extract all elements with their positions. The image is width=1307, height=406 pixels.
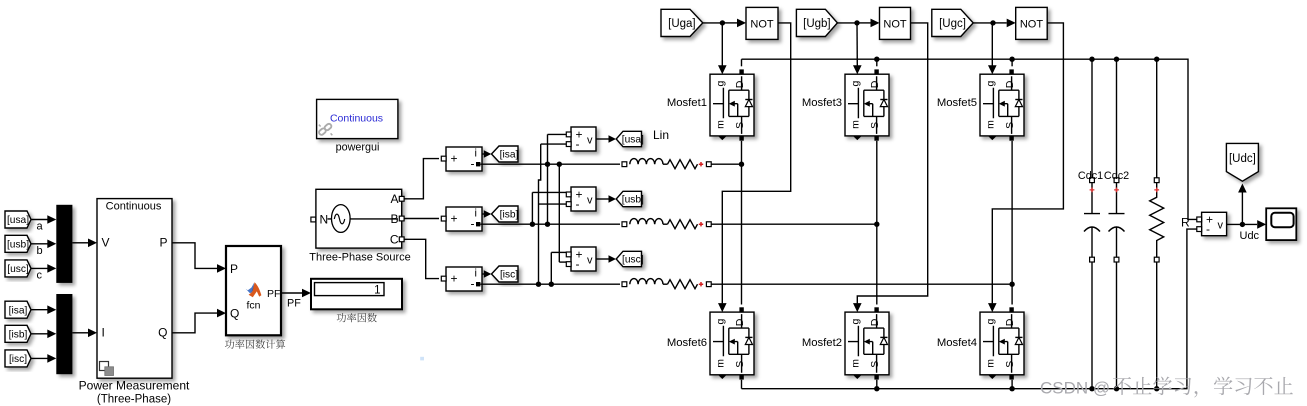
- svg-text:g: g: [984, 318, 996, 324]
- svg-text:PF: PF: [287, 298, 301, 310]
- wire tap a-c: [539, 144, 541, 284]
- svg-text:[isc]: [isc]: [500, 270, 518, 281]
- svg-text:-: -: [576, 257, 580, 271]
- goto tag [isc]: [492, 266, 519, 282]
- wire mux I to PM: [72, 332, 88, 334]
- from tag [Uga]: [661, 9, 703, 36]
- resistor phase a: [668, 160, 698, 169]
- wire i to [isc]: [482, 273, 487, 275]
- inductor Lin phase b: [630, 219, 698, 229]
- svg-text:i: i: [475, 208, 477, 220]
- wire VMa+: [548, 133, 567, 135]
- wire leg midpoint: [1011, 141, 1013, 305]
- wire NOT A to Mosfet6 gate: [722, 23, 790, 304]
- svg-text:[usa]: [usa]: [7, 215, 29, 226]
- wire v to [usc]: [596, 258, 612, 260]
- logic gate NOT Ugc: [1016, 7, 1047, 39]
- wire S to bottom bus: [741, 380, 743, 389]
- svg-text:a: a: [37, 221, 44, 233]
- capacitor Cdc2: [1109, 59, 1125, 389]
- wire phase to leg: [711, 283, 1012, 285]
- resistor phase b: [668, 220, 698, 229]
- svg-text:S: S: [869, 122, 881, 129]
- svg-text:g: g: [849, 81, 861, 87]
- wire leg midpoint: [741, 141, 743, 305]
- svg-text:-: -: [576, 137, 580, 151]
- svg-text:m: m: [984, 120, 996, 129]
- wire gate top: [991, 23, 993, 66]
- svg-text:[isa]: [isa]: [500, 150, 519, 161]
- wire NOT B to Mosfet2 gate: [857, 23, 927, 304]
- scope Udc: [1266, 208, 1296, 240]
- resistor R load: [1150, 59, 1164, 389]
- wire phase to leg: [711, 223, 877, 225]
- svg-text:[usc]: [usc]: [7, 264, 29, 275]
- svg-text:Continuous: Continuous: [106, 201, 162, 213]
- current measurement CMa: [446, 147, 482, 171]
- wire tap c: [550, 252, 552, 284]
- wire gate top: [856, 23, 858, 66]
- block display 功率因数: [311, 279, 402, 310]
- wire Q: [172, 313, 217, 333]
- svg-text:Cdc1: Cdc1: [1078, 170, 1103, 182]
- svg-text:D: D: [734, 80, 746, 88]
- svg-text:R: R: [1181, 215, 1190, 229]
- svg-text:D: D: [869, 318, 881, 326]
- wire S to bottom bus: [1011, 380, 1013, 389]
- svg-text:[usa]: [usa]: [622, 135, 644, 146]
- wire D to bus: [876, 59, 878, 66]
- svg-text:m: m: [849, 120, 861, 129]
- svg-text:m: m: [714, 359, 726, 368]
- svg-text:NOT: NOT: [883, 18, 907, 30]
- wire phase: [481, 163, 621, 165]
- svg-text:[usb]: [usb]: [7, 240, 29, 251]
- svg-text:D: D: [869, 80, 881, 88]
- wire phase: [481, 283, 621, 285]
- wire v to [usb]: [596, 198, 612, 200]
- from tag [Ugc]: [932, 9, 973, 36]
- mux voltage: [56, 205, 72, 283]
- svg-text:[usb]: [usb]: [622, 195, 644, 206]
- voltage measurement VMc: [571, 247, 596, 271]
- svg-text:(Three-Phase): (Three-Phase): [97, 394, 171, 406]
- wire v out: [1227, 223, 1257, 225]
- svg-text:Lin: Lin: [653, 128, 669, 142]
- wire v to [usa]: [596, 138, 612, 140]
- resistor phase c: [668, 280, 698, 289]
- logic gate NOT Uga: [746, 7, 778, 39]
- wire [isa] to mux: [31, 309, 48, 311]
- from tag [isb]: [5, 325, 31, 342]
- wire [Uga]: [703, 22, 723, 24]
- current measurement CMc: [446, 267, 482, 291]
- wire [isb] to mux: [31, 333, 48, 335]
- svg-text:Q: Q: [230, 307, 239, 321]
- svg-text:-: -: [576, 197, 580, 211]
- svg-text:N: N: [320, 212, 329, 226]
- svg-text:S: S: [734, 122, 746, 129]
- svg-text:[isc]: [isc]: [9, 354, 27, 365]
- transistor Mosfet4: [980, 312, 1024, 375]
- svg-text:I: I: [102, 326, 105, 340]
- voltage measurement VMb: [571, 187, 596, 211]
- from tag [isa]: [5, 301, 31, 318]
- wire tap b: [531, 192, 533, 224]
- from tag [isc]: [5, 350, 31, 367]
- svg-text:+: +: [451, 272, 458, 286]
- svg-text:A: A: [390, 192, 398, 206]
- svg-text:[Uga]: [Uga]: [668, 18, 696, 30]
- transistor Mosfet3: [845, 74, 889, 136]
- wire [Ugc]: [973, 22, 993, 24]
- svg-text:NOT: NOT: [750, 18, 774, 30]
- svg-text:-: -: [471, 277, 475, 291]
- svg-text:[usc]: [usc]: [622, 255, 644, 266]
- svg-text:CSDN @: CSDN @: [1040, 379, 1110, 398]
- transistor Mosfet2: [845, 312, 889, 375]
- goto tag [usa]: [616, 131, 644, 146]
- svg-text:Power Measurement: Power Measurement: [79, 379, 190, 393]
- svg-text:[Udc]: [Udc]: [1229, 153, 1256, 165]
- goto tag [isa]: [492, 146, 519, 162]
- wire i to [isb]: [482, 213, 487, 215]
- svg-text:i: i: [475, 268, 477, 280]
- svg-text:c: c: [37, 269, 43, 281]
- svg-text:D: D: [734, 318, 746, 326]
- svg-text:-: -: [471, 157, 475, 171]
- voltage measurement VMa: [571, 127, 596, 151]
- wire mux V to PM: [72, 242, 88, 244]
- wire [isc] to mux: [31, 357, 48, 359]
- goto tag [Udc]: [1226, 143, 1258, 181]
- transistor Mosfet1: [710, 74, 754, 136]
- mux current: [56, 294, 72, 374]
- inductor Lin phase c: [630, 279, 698, 289]
- svg-text:m: m: [714, 120, 726, 129]
- svg-text:-: -: [471, 217, 475, 231]
- svg-text:Mosfet5: Mosfet5: [937, 97, 977, 109]
- svg-text:P: P: [230, 262, 238, 276]
- svg-text:S: S: [1004, 122, 1016, 129]
- svg-text:+: +: [451, 152, 458, 166]
- from tag [usa]: [5, 211, 31, 228]
- svg-text:B: B: [390, 212, 398, 226]
- wire tap A to VMc-: [558, 164, 560, 262]
- wire VMc+: [551, 251, 566, 253]
- svg-text:g: g: [984, 81, 996, 87]
- wire i to [isa]: [482, 153, 487, 155]
- svg-text:[isb]: [isb]: [9, 330, 28, 341]
- svg-text:Three-Phase Source: Three-Phase Source: [309, 252, 411, 264]
- svg-text:fcn: fcn: [246, 300, 260, 312]
- block Three-Phase Source: [316, 189, 402, 248]
- wire top DC bus: [742, 59, 1197, 219]
- wire P: [172, 243, 217, 269]
- wire to Udc tag: [1241, 190, 1243, 224]
- svg-text:Udc: Udc: [1240, 230, 1260, 242]
- svg-text:NOT: NOT: [1020, 18, 1044, 30]
- svg-text:Mosfet1: Mosfet1: [667, 97, 707, 109]
- logic gate NOT Ugb: [880, 7, 911, 39]
- wire phase: [481, 223, 621, 225]
- svg-text:Mosfet4: Mosfet4: [937, 337, 977, 349]
- wire to NOT: [722, 22, 737, 24]
- svg-text:PF: PF: [267, 288, 280, 300]
- voltage measurement Udc: [1202, 212, 1227, 236]
- wire to NOT: [993, 22, 1007, 24]
- svg-text:Mosfet3: Mosfet3: [802, 97, 842, 109]
- wire gate top: [721, 23, 723, 66]
- svg-text:b: b: [37, 245, 43, 257]
- svg-text:[Ugb]: [Ugb]: [803, 18, 831, 30]
- from tag [Ugb]: [796, 9, 837, 36]
- goto tag [usc]: [616, 251, 644, 266]
- wire [usb] to mux: [31, 243, 48, 245]
- svg-text:Mosfet2: Mosfet2: [802, 337, 842, 349]
- block Power Measurement (Three-Phase): [97, 199, 172, 379]
- svg-text:1: 1: [374, 284, 380, 296]
- svg-text:v: v: [587, 135, 593, 147]
- svg-text:[isa]: [isa]: [9, 305, 28, 316]
- svg-text:S: S: [869, 361, 881, 368]
- svg-text:P: P: [159, 236, 167, 250]
- wire VMb+: [532, 191, 566, 193]
- wire PF: [281, 292, 302, 294]
- wire VMa-: [541, 143, 567, 145]
- svg-text:S: S: [1004, 361, 1016, 368]
- svg-text:V: V: [102, 236, 110, 250]
- wire leg midpoint: [876, 141, 878, 305]
- wire D to bus: [741, 59, 743, 66]
- goto tag [isb]: [492, 206, 519, 222]
- svg-text:v: v: [1218, 220, 1224, 232]
- svg-text:Continuous: Continuous: [330, 113, 383, 125]
- transistor Mosfet5: [980, 74, 1024, 136]
- wire bottom DC bus: [742, 229, 1197, 389]
- svg-text:m: m: [849, 359, 861, 368]
- svg-text:D: D: [1004, 80, 1016, 88]
- svg-text:g: g: [714, 318, 726, 324]
- current measurement CMb: [446, 207, 482, 231]
- artifact blue cursor: [420, 357, 424, 361]
- svg-text:+: +: [451, 212, 458, 226]
- svg-text:C: C: [390, 233, 399, 247]
- wire tap A-B: [547, 134, 549, 224]
- svg-text:S: S: [734, 361, 746, 368]
- wire source B: [404, 218, 439, 220]
- svg-text:v: v: [587, 195, 593, 207]
- svg-text:[Ugc]: [Ugc]: [939, 18, 966, 30]
- svg-text:m: m: [984, 359, 996, 368]
- goto tag [usb]: [616, 191, 644, 206]
- wire NOT C to Mosfet4 gate: [992, 23, 1063, 304]
- transistor Mosfet6: [710, 312, 754, 375]
- wire S to bottom bus: [876, 380, 878, 389]
- from tag [usb]: [5, 235, 31, 252]
- svg-text:Cdc2: Cdc2: [1104, 170, 1129, 182]
- wire VMb-: [539, 203, 567, 205]
- svg-text:g: g: [849, 318, 861, 324]
- wire VMc-: [559, 261, 566, 263]
- svg-text:Q: Q: [158, 326, 167, 340]
- wire D to bus: [1011, 59, 1013, 66]
- svg-text:v: v: [587, 255, 593, 267]
- wire source A: [404, 159, 439, 199]
- block MATLAB function 功率因数计算 U1: [226, 246, 281, 335]
- wire phase to leg: [711, 163, 741, 165]
- svg-text:i: i: [475, 148, 477, 160]
- inductor Lin phase a: [630, 159, 698, 169]
- svg-text:[isb]: [isb]: [500, 210, 519, 221]
- svg-text:D: D: [1004, 318, 1016, 326]
- wire [Ugb]: [837, 22, 857, 24]
- wire [usc] to mux: [31, 267, 48, 269]
- wire source C: [404, 239, 439, 278]
- svg-text:-: -: [1206, 222, 1210, 236]
- svg-text:g: g: [714, 81, 726, 87]
- block powergui: [317, 99, 398, 138]
- svg-text:Mosfet6: Mosfet6: [667, 337, 707, 349]
- svg-text:powergui: powergui: [336, 142, 380, 154]
- from tag [usc]: [5, 260, 31, 277]
- wire [usa] to mux: [31, 219, 48, 221]
- wire to NOT: [857, 22, 871, 24]
- capacitor Cdc1: [1084, 59, 1100, 389]
